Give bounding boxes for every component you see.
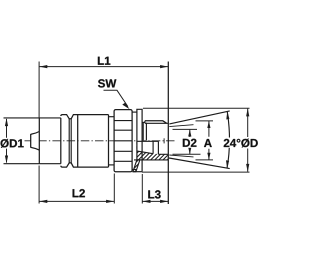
end bore line: [158, 153, 168, 155]
label 24dOD: [224, 139, 258, 148]
L2 arrow right: [106, 200, 114, 203]
nose bottom edge with OD1 extension: [4, 163, 61, 165]
mask for 24dOD: [223, 138, 260, 148]
hex centerline segment: [114, 140, 132, 142]
L1 arrow left: [39, 65, 47, 68]
L3 arrow right: [160, 200, 168, 203]
L3 arrow left: [143, 200, 151, 203]
D2 arrow up: [188, 130, 191, 137]
step line nose to collar: [60, 118, 62, 164]
neck barrel to hex top: [109, 116, 115, 118]
nose top edge with OD1 extension: [4, 117, 61, 119]
arc arrowhead top: [226, 111, 229, 119]
A arrow down: [207, 153, 210, 160]
label A: [204, 139, 212, 147]
L1 dimension line: [39, 66, 168, 68]
stud wall section hatch: [106, 140, 191, 180]
A arrow up: [207, 121, 210, 128]
barrel right edge: [108, 115, 110, 168]
centerline: [24, 140, 176, 142]
label SW: [98, 79, 116, 87]
SW leader: [104, 90, 128, 106]
L3 extension left: [141, 174, 143, 204]
L2 extension left: [38, 166, 40, 204]
OD dimension line: [247, 109, 249, 172]
stud OD bottom line: [134, 159, 168, 161]
neck hex to washer bottom: [132, 169, 137, 171]
valve face line: [38, 118, 40, 164]
label OD1: [1, 139, 24, 148]
label D2: [183, 139, 197, 147]
label L3: [148, 190, 160, 198]
D2 extension top: [173, 128, 198, 130]
collar and barrel top outline with ball groove: [61, 115, 109, 119]
hex facet line 3: [114, 150, 132, 152]
collar and barrel bottom outline with ball groove: [61, 163, 109, 167]
barrel shoulder line: [77, 115, 79, 168]
bore cone line in section: [137, 151, 153, 154]
valve stem lines upper half: [143, 123, 146, 141]
L3 dimension line: [142, 200, 168, 202]
OD dim arrow down: [246, 164, 249, 172]
OD dim arrow up: [246, 108, 249, 116]
cone top inner line: [169, 125, 193, 127]
hex nut SW: [114, 110, 132, 172]
OD extension line top: [143, 107, 250, 109]
D2 arrow down: [188, 147, 191, 154]
OD1 arrow down: [5, 156, 8, 164]
mask for OD1: [0, 138, 25, 148]
bore step left: [152, 141, 154, 153]
apex tick on centerline: [163, 138, 165, 143]
A extension top: [196, 120, 214, 122]
hex facet line 2: [114, 129, 132, 131]
OD extension line bottom: [142, 171, 250, 173]
L2 arrow left: [39, 200, 47, 203]
groove wall right: [70, 119, 72, 163]
neck barrel to hex bottom: [109, 164, 115, 166]
washer leg bottom edge: [133, 171, 142, 173]
washer flange: [137, 109, 142, 171]
SW leader arrowhead: [122, 103, 129, 110]
A extension bottom: [196, 159, 214, 161]
neck hex to washer top: [132, 111, 137, 113]
L1 L3 extension right and stud end face: [167, 62, 169, 205]
thread neck line: [142, 121, 145, 123]
label L2: [73, 189, 85, 197]
label L1: [98, 57, 110, 65]
poppet tip: [31, 132, 40, 151]
washer hidden edge dashes: [136, 142, 138, 152]
thread crest line with end chamfer: [145, 121, 167, 123]
mask for D2: [181, 138, 199, 148]
seat chamber top: [137, 140, 158, 142]
hex facet line 4: [114, 160, 132, 162]
cone bottom slant: [169, 158, 230, 169]
L1 arrow right: [160, 65, 168, 68]
L2 extension right: [113, 174, 115, 204]
hex facet line 1: [114, 120, 132, 122]
thread start edge: [144, 121, 146, 123]
cone bottom inner line: [169, 155, 193, 157]
arc arrowhead bottom: [226, 160, 229, 168]
groove wall left: [68, 119, 70, 163]
D2 extension bottom: [173, 153, 201, 155]
OD1 arrow up: [5, 118, 8, 126]
OD1 dimension line: [6, 119, 8, 163]
L2 dimension line: [39, 200, 114, 202]
L1 extension left: [38, 62, 40, 118]
thread root line: [145, 122, 168, 124]
bore step right: [157, 141, 159, 154]
cone top slant: [169, 111, 229, 124]
D2 dimension line: [189, 130, 191, 155]
mask for A: [203, 138, 214, 148]
washer section hatch leg: [133, 160, 140, 172]
24 degree angular arc: [227, 112, 229, 168]
A dimension line: [208, 121, 210, 160]
